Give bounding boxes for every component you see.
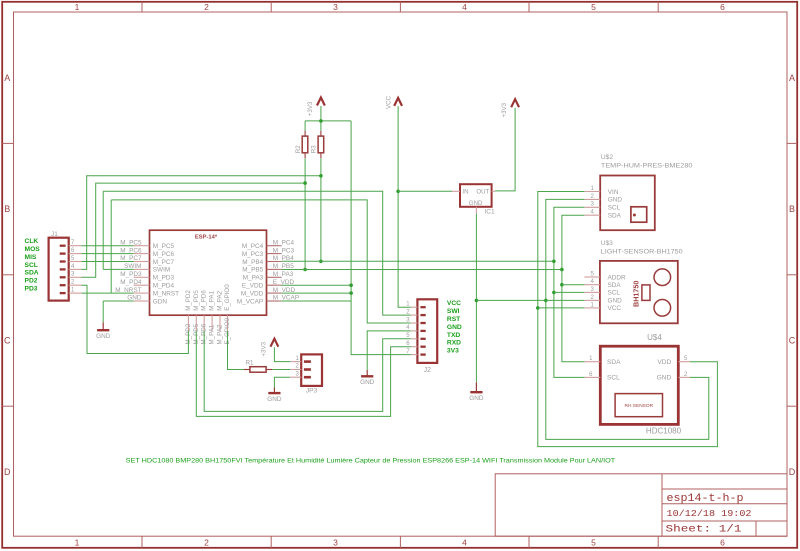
svg-text:M_PD2: M_PD2	[185, 290, 192, 311]
frame column tick top 5	[657, 2, 659, 12]
wire net SCL bus U$2.SCL to U$4.SCL	[554, 207, 585, 377]
svg-text:GND: GND	[267, 396, 282, 403]
svg-text:VIN: VIN	[608, 189, 619, 196]
svg-text:E_GPIO0: E_GPIO0	[224, 284, 231, 311]
connector JP3 body	[301, 354, 322, 386]
svg-text:M_PD3: M_PD3	[153, 275, 175, 282]
J2 pin dash 2	[420, 314, 425, 316]
junction sensor +3V3 at U$3 VCC	[536, 306, 540, 310]
wire J2.4 GND down	[367, 331, 411, 370]
U$3 glyph rectangle	[642, 285, 650, 301]
svg-text:J2: J2	[424, 367, 432, 374]
wire net RXD J2.6 to ESP M_PD5	[196, 331, 410, 416]
svg-text:M_PC4: M_PC4	[242, 243, 264, 250]
U$2 pin stub 3	[584, 206, 600, 208]
svg-text:D: D	[4, 467, 11, 477]
svg-text:M_PA2: M_PA2	[217, 324, 224, 344]
U$3 pin stub 3	[584, 291, 600, 293]
JP3 pin dash 1	[304, 360, 311, 363]
wire IC1 OUT up to +3V3	[495, 108, 515, 191]
svg-text:GND: GND	[657, 375, 672, 382]
ESP-14 right pin M_VDD	[267, 292, 282, 294]
svg-text:SCL: SCL	[607, 375, 620, 382]
J2 pin stub 3	[411, 322, 418, 324]
frame column tick bottom 3	[399, 536, 401, 548]
frame row tick right 3	[787, 405, 797, 407]
JP3 pin dash 3	[304, 376, 311, 379]
junction SCL bus at M_PB4 row	[552, 260, 556, 264]
svg-text:M_PA1: M_PA1	[209, 290, 216, 310]
J1 pin stub 3	[69, 276, 82, 278]
wire net PD2 J1.2 to ESP M_PD2	[82, 285, 189, 353]
U$4 pin stub SDA	[585, 361, 601, 363]
svg-text:+3V3: +3V3	[501, 102, 508, 117]
svg-text:4: 4	[462, 2, 467, 12]
frame column tick top 2	[270, 2, 272, 12]
wire U$3 SDA to bus	[562, 284, 585, 286]
svg-text:5: 5	[591, 2, 596, 12]
svg-text:M_VDD: M_VDD	[241, 290, 264, 297]
svg-text:BH1750: BH1750	[632, 281, 641, 307]
resistor R3 top lead	[320, 131, 322, 137]
wire net SDA bus U$2.SDA to U$4.SDA	[562, 215, 585, 362]
svg-text:OUT: OUT	[476, 189, 489, 196]
svg-text:GND: GND	[96, 333, 111, 340]
svg-text:M_PC3: M_PC3	[273, 247, 295, 254]
wire net GND sensors U$2.GND U$4.GND bus	[546, 199, 709, 439]
IC1 pin GND stub	[475, 207, 477, 214]
svg-text:RH SENSOR: RH SENSOR	[625, 403, 654, 409]
frame column tick bottom 2	[270, 536, 272, 548]
wire JP3.3 to ground	[274, 377, 290, 387]
U$2 pin stub 1	[584, 191, 600, 193]
svg-text:TXD: TXD	[447, 332, 461, 339]
ESP-14 left pin GDN	[134, 300, 150, 302]
wire IC1 GND down	[475, 214, 477, 382]
junction SDA bus at U$3 SDA	[560, 283, 564, 287]
title block sheet cell divider	[755, 521, 757, 536]
svg-text:M_PC5: M_PC5	[153, 243, 175, 250]
svg-text:SDA: SDA	[25, 270, 39, 277]
svg-text:TEMP-HUM-PRES-BME280: TEMP-HUM-PRES-BME280	[601, 163, 693, 170]
frame row tick left 3	[2, 405, 13, 407]
svg-text:1: 1	[75, 538, 80, 548]
svg-text:M_PB5: M_PB5	[242, 267, 263, 274]
title block row line 2	[662, 503, 787, 505]
JP3 pin dash 2	[304, 368, 311, 371]
svg-text:PD3: PD3	[25, 286, 38, 293]
ground symbol below J2	[360, 370, 375, 386]
svg-text:M_NRST: M_NRST	[153, 290, 179, 297]
J2 pin stub 5	[411, 338, 418, 340]
svg-text:HDC1080: HDC1080	[646, 426, 682, 435]
J2 pin stub 6	[411, 346, 418, 348]
svg-text:4: 4	[462, 538, 467, 548]
junction SCL bus at U$3 SCL	[552, 291, 556, 295]
J2 pin dash 1	[420, 306, 425, 308]
svg-text:MOS: MOS	[25, 246, 41, 253]
svg-text:M_VCAP: M_VCAP	[237, 298, 263, 305]
module ESP-14 body	[150, 230, 267, 315]
U$3 pin stub 2	[584, 299, 600, 301]
wire +3V3 bus to J2.7	[351, 121, 411, 355]
svg-text:RST: RST	[447, 316, 461, 323]
ESP-14 left pin SWIM	[134, 268, 150, 270]
svg-text:IC1: IC1	[484, 209, 495, 216]
svg-text:SCL: SCL	[608, 205, 621, 212]
power symbol VCC	[385, 95, 402, 109]
J1 pin dash 2	[60, 284, 66, 286]
svg-text:GDN: GDN	[153, 298, 168, 305]
frame row tick left 1	[2, 142, 13, 144]
resistor R1 body	[250, 367, 266, 373]
ESP-14 right pin E_VDD	[267, 284, 282, 286]
resistor R2 body	[302, 136, 308, 153]
svg-text:VCC: VCC	[608, 305, 622, 312]
J1 pin dash 5	[60, 260, 66, 262]
svg-text:SCL: SCL	[608, 290, 621, 297]
U$2 pin stub 2	[584, 198, 600, 200]
J1 pin dash 6	[60, 252, 66, 254]
wire R3 bottom down to M_PB4 row	[320, 158, 322, 261]
wire net E_GPIO0 to R1	[228, 331, 244, 370]
resistor R2 bottom lead	[304, 153, 306, 158]
svg-text:SET HDC1080 BMP280 BH1750FVI T: SET HDC1080 BMP280 BH1750FVI Température…	[126, 457, 616, 464]
svg-text:+3V3: +3V3	[307, 101, 314, 116]
IC1 pin IN stub	[452, 190, 460, 192]
J2 pin dash 5	[420, 338, 425, 340]
junction E_VDD	[349, 283, 353, 287]
wire net GND drop to ground	[102, 301, 104, 322]
svg-text:3: 3	[333, 2, 338, 12]
svg-text:RXD: RXD	[447, 340, 461, 347]
ESP-14 bottom pin M_PD5	[195, 315, 197, 331]
svg-text:U$4: U$4	[647, 333, 662, 342]
svg-text:R3: R3	[310, 145, 317, 153]
wire U$3 VCC to +3V3 bus	[538, 307, 585, 309]
svg-text:M_PD3: M_PD3	[120, 271, 142, 278]
svg-text:GND: GND	[608, 298, 623, 305]
JP3 pin stub 1	[290, 361, 301, 363]
junction VCC at IC1 IN	[396, 190, 400, 194]
frame column tick bottom 1	[141, 536, 143, 548]
U$3 pin stub 5	[584, 276, 600, 278]
wire net M_NRST trunk to J2.3	[111, 200, 411, 323]
svg-text:SDA: SDA	[607, 359, 621, 366]
wire net M_PC7 J1.5 to ESP	[82, 261, 134, 263]
frame column tick top 4	[528, 2, 530, 12]
svg-text:ESP-14*: ESP-14*	[195, 234, 218, 240]
svg-text:10/12/18 19:02: 10/12/18 19:02	[667, 508, 752, 519]
ground symbol below ESP GDN	[96, 322, 111, 340]
J1 pin stub 7	[69, 245, 82, 247]
resistor R3 body	[318, 136, 324, 153]
wire net E_VDD to +3V3 bus	[282, 284, 352, 286]
ESP-14 bottom pin E_GPIO0	[227, 315, 229, 331]
title block row line 1	[662, 488, 787, 490]
J1 pin dash 1	[60, 292, 66, 294]
junction +3V3 node	[319, 119, 323, 123]
svg-text:B: B	[789, 204, 795, 214]
wire sensor GND row U$3.GND	[476, 299, 584, 301]
svg-text:SCL: SCL	[25, 262, 38, 269]
wire net M_PC6 J1.6 to ESP	[82, 253, 134, 255]
U$2 chip glyph dot	[633, 214, 636, 217]
frame column tick bottom 5	[657, 536, 659, 548]
wire +3V3 arrow to R3	[320, 106, 322, 131]
junction M_VDD	[349, 291, 353, 295]
ESP-14 left pin M_NRST	[134, 292, 150, 294]
ESP-14 left pin M_PC5	[134, 245, 150, 247]
J1 pin stub 5	[69, 261, 82, 263]
svg-text:SDA: SDA	[608, 282, 622, 289]
J2 pin dash 3	[420, 322, 425, 324]
svg-text:M_PC7: M_PC7	[153, 259, 175, 266]
junction SDA trunk at R2	[303, 181, 307, 185]
ESP-14 right pin M_PB4	[267, 261, 282, 263]
title block row line 3	[662, 520, 787, 522]
J2 pin dash 7	[420, 353, 425, 355]
svg-text:GND: GND	[360, 379, 375, 386]
title block divider vertical	[661, 474, 663, 536]
JP3 pin stub 2	[290, 369, 301, 371]
svg-text:M_PA3: M_PA3	[243, 275, 264, 282]
J2 pin stub 1	[411, 306, 418, 308]
junction SDA bus at M_PB5 row	[560, 268, 564, 272]
svg-text:3: 3	[333, 538, 338, 548]
svg-text:M_PD5: M_PD5	[193, 290, 200, 311]
wire +3V3 distribution horizontal	[305, 120, 351, 122]
junction SCL trunk at R3	[319, 174, 323, 178]
wire net TXD J2.5 to ESP M_PD6	[204, 331, 411, 411]
svg-text:M_PA2: M_PA2	[217, 290, 224, 310]
frame column tick top 3	[399, 2, 401, 12]
module U$3 body	[600, 261, 678, 323]
U$2 pin stub 4	[584, 214, 600, 216]
wire net SWIM trunk to J2.2	[103, 191, 411, 315]
ESP-14 right pin M_PA3	[267, 276, 282, 278]
wire net M_PC5 J1.7 to ESP	[82, 245, 134, 247]
svg-text:R2: R2	[295, 145, 302, 153]
svg-text:M_PA1: M_PA1	[209, 324, 216, 344]
U$4 pin stub VDD	[678, 361, 690, 363]
svg-text:GND: GND	[608, 197, 623, 204]
J1 pin dash 4	[60, 268, 66, 270]
wire R1 to JP3.2	[272, 369, 290, 371]
svg-text:M_PC3: M_PC3	[242, 251, 264, 258]
svg-text:E_VDD: E_VDD	[242, 283, 264, 290]
junction M_PB5 at R2	[303, 268, 307, 272]
connector J2 body	[417, 299, 437, 363]
junction sensor GND at U$3 GND row	[544, 299, 548, 303]
wire U$3 SCL to bus	[554, 291, 585, 293]
ESP-14 bottom pin M_PA2	[219, 315, 221, 331]
wire net GND into ESP GDN	[103, 300, 134, 302]
resistor R2 top lead	[304, 131, 306, 137]
wire net M_NRST J1.1 to ESP	[82, 292, 134, 294]
wire net VCC down to J2.1	[398, 106, 411, 307]
IC1 pin OUT stub	[492, 190, 496, 192]
ESP-14 left pin M_PC6	[134, 253, 150, 255]
title block outline	[495, 474, 787, 536]
J2 pin stub 4	[411, 330, 418, 332]
junction IC1 GND with sensor GND row	[475, 299, 479, 303]
svg-text:ADDR: ADDR	[608, 274, 626, 281]
svg-text:D: D	[789, 467, 796, 477]
resistor R1 left lead	[244, 369, 250, 371]
svg-text:VCC: VCC	[447, 300, 461, 307]
U$2 chip glyph square	[631, 207, 647, 222]
U$3 pin stub 1	[584, 307, 600, 309]
ESP-14 bottom pin M_PA1	[211, 315, 213, 331]
ESP-14 right pin M_VCAP	[267, 300, 282, 302]
resistor R3 bottom lead	[320, 153, 322, 158]
svg-text:M_PD4: M_PD4	[153, 283, 175, 290]
frame row tick right 2	[787, 274, 797, 276]
wire net SCL J1.4 up to trunk	[82, 176, 321, 270]
voltage regulator IC1 body	[460, 184, 492, 207]
ESP-14 left pin M_PC7	[134, 261, 150, 263]
resistor R1 right lead	[266, 369, 272, 371]
svg-text:M_PC6: M_PC6	[153, 251, 175, 258]
svg-text:6: 6	[720, 2, 725, 12]
svg-text:GND: GND	[469, 200, 483, 207]
junction M_PB4 at R3	[319, 260, 323, 264]
svg-text:C: C	[789, 336, 796, 346]
svg-text:+3V3: +3V3	[261, 341, 268, 356]
wire net M_PB4 SCL row to sensors	[282, 260, 554, 262]
ESP-14 right pin M_PC4	[267, 245, 282, 247]
svg-text:6: 6	[720, 538, 725, 548]
svg-text:M_PB4: M_PB4	[242, 259, 263, 266]
svg-text:M_PD6: M_PD6	[201, 290, 208, 311]
wire net M_VDD to +3V3 bus	[282, 292, 352, 294]
ESP-14 left pin M_PD4	[134, 284, 150, 286]
wire net +3V3 sensors U$2.VIN U$4.VDD bus	[538, 192, 718, 447]
J1 pin dash 3	[60, 276, 66, 278]
ESP-14 right pin M_PB5	[267, 268, 282, 270]
svg-text:M_PD4: M_PD4	[120, 279, 142, 286]
svg-text:5: 5	[591, 538, 596, 548]
wire net M_PB5 SDA row to sensors	[282, 269, 562, 271]
frame row tick left 2	[2, 274, 13, 276]
connector J1 body	[49, 238, 69, 301]
svg-text:esp14-t-h-p: esp14-t-h-p	[667, 493, 744, 505]
ESP-14 bottom pin M_PD6	[203, 315, 205, 331]
module U$4 body	[600, 346, 678, 424]
svg-text:U$3: U$3	[601, 240, 613, 247]
svg-text:3V3: 3V3	[447, 348, 459, 355]
wire R2 bottom down to M_PB5 row	[304, 158, 306, 269]
svg-text:M_PA3: M_PA3	[273, 271, 294, 278]
module U$2 body	[600, 176, 655, 231]
U$4 pin stub GND	[678, 376, 690, 378]
svg-text:SWIM: SWIM	[153, 267, 170, 274]
wire net M_NRST drop	[110, 200, 112, 293]
svg-text:GND: GND	[447, 324, 462, 331]
power symbol +3V3 at JP3	[261, 339, 279, 357]
svg-text:JP3: JP3	[306, 388, 318, 395]
frame row tick right 1	[787, 142, 797, 144]
svg-text:2: 2	[204, 538, 209, 548]
U$4 pin stub SCL	[585, 376, 601, 378]
J1 pin stub 2	[69, 284, 82, 286]
U$3 glyph circle bottom	[654, 300, 671, 317]
svg-text:VDD: VDD	[657, 359, 671, 366]
J2 pin stub 7	[411, 354, 418, 356]
wire net M_VCAP to +3V3 bus	[282, 300, 352, 302]
svg-text:IN: IN	[462, 189, 468, 196]
J2 pin stub 2	[411, 314, 418, 316]
J1 pin stub 1	[69, 292, 82, 294]
svg-text:U$2: U$2	[601, 154, 613, 161]
ground symbol below JP3	[267, 387, 282, 403]
svg-text:LIGHT-SENSOR-BH1750: LIGHT-SENSOR-BH1750	[601, 248, 683, 255]
wire VCC to IC1 IN	[398, 190, 452, 192]
svg-text:1: 1	[75, 2, 80, 12]
svg-text:MIS: MIS	[25, 254, 37, 261]
J2 pin dash 4	[420, 330, 425, 332]
svg-text:CLK: CLK	[25, 238, 39, 245]
wire net SDA J1.3 up to trunk	[82, 183, 306, 277]
J1 pin stub 6	[69, 253, 82, 255]
power symbol +3V3 above IC1 OUT	[501, 99, 519, 117]
frame column tick bottom 4	[528, 536, 530, 548]
U$3 pin stub 4	[584, 284, 600, 286]
U$3 glyph circle top	[654, 269, 671, 286]
wire +3V3 to R2 top	[304, 121, 306, 131]
J2 pin dash 6	[420, 346, 425, 348]
ESP-14 left pin M_PD3	[134, 276, 150, 278]
svg-text:A: A	[789, 73, 795, 83]
svg-text:M_PC4: M_PC4	[273, 239, 295, 246]
wire net SWIM drop	[102, 191, 104, 269]
svg-text:R1: R1	[246, 359, 254, 366]
svg-text:GND: GND	[469, 395, 484, 402]
ESP-14 bottom pin M_PD2	[187, 315, 189, 331]
wire net SWIM into ESP	[103, 268, 134, 270]
J1 pin dash 7	[60, 245, 66, 247]
svg-text:VCC: VCC	[385, 95, 392, 109]
svg-text:Sheet: 1/1: Sheet: 1/1	[666, 524, 742, 536]
svg-text:SDA: SDA	[608, 213, 622, 220]
J1 pin stub 4	[69, 268, 82, 270]
svg-text:PD2: PD2	[25, 278, 38, 285]
ground symbol below IC1	[469, 382, 484, 402]
wire +3V3 to JP3.1	[274, 347, 290, 361]
U$4 RH SENSOR glyph box	[615, 394, 662, 417]
svg-text:C: C	[4, 336, 11, 346]
ESP-14 right pin M_PC3	[267, 253, 282, 255]
svg-text:SWI: SWI	[447, 308, 460, 315]
svg-text:A: A	[4, 73, 10, 83]
power symbol +3V3 above R2 R3	[307, 98, 325, 117]
svg-text:B: B	[4, 204, 10, 214]
frame column tick top 1	[141, 2, 143, 12]
svg-text:2: 2	[204, 2, 209, 12]
JP3 pin stub 3	[290, 376, 301, 378]
svg-text:J1: J1	[51, 231, 58, 238]
